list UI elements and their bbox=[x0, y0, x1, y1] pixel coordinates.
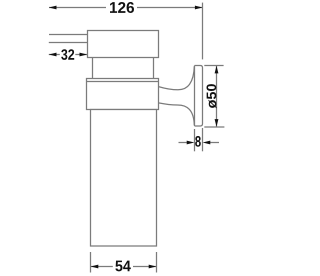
pump neck right edge bbox=[153, 58, 155, 79]
dimension 32 right arrow bbox=[80, 53, 88, 57]
collar inner line bbox=[87, 81, 159, 83]
dimension diameter 50 label bbox=[207, 84, 217, 108]
dimension 8 right extension line bbox=[202, 128, 204, 151]
collar bbox=[87, 79, 159, 110]
dimension 54 left arrow bbox=[91, 265, 99, 269]
dimension 126 line bbox=[49, 7, 203, 9]
dimension 54 line bbox=[91, 266, 157, 268]
dimension 32 line bbox=[49, 54, 87, 56]
dimension 8 right tail bbox=[210, 142, 219, 144]
dimension 8 left tail bbox=[179, 142, 187, 144]
dimension diameter 50 bottom extension line bbox=[204, 126, 224, 128]
spout top line bbox=[49, 34, 88, 36]
dimension 54 left extension line bbox=[90, 252, 92, 273]
dimension diameter 50 line bbox=[216, 66, 218, 128]
bracket plate left edge bbox=[194, 66, 196, 127]
dimension 54 label bbox=[115, 261, 130, 272]
wall extension line bbox=[202, 3, 204, 60]
dimension 32 label bbox=[61, 49, 74, 60]
dimension 8 label bbox=[195, 136, 201, 147]
dimension 126 label bbox=[110, 2, 134, 13]
bracket wall plate bbox=[195, 66, 203, 127]
pump neck left edge bbox=[92, 58, 94, 79]
spout bottom line bbox=[49, 42, 88, 44]
pump head bbox=[88, 31, 159, 58]
bracket trumpet bottom curve bbox=[159, 103, 195, 125]
dimension diameter 50 bottom arrow bbox=[215, 119, 219, 127]
dimension 8 left arrow bbox=[187, 141, 195, 145]
dimension 54 right extension line bbox=[156, 252, 158, 273]
dimension 32 left arrow bbox=[49, 53, 57, 57]
dimension 126 left arrow bbox=[49, 6, 57, 10]
dimension diameter 50 top extension line bbox=[204, 65, 223, 67]
dimension 8 left extension line bbox=[194, 129, 196, 151]
dimension 54 right arrow bbox=[149, 265, 157, 269]
bracket trumpet top curve bbox=[159, 66, 195, 90]
dimension diameter 50 top arrow bbox=[215, 66, 219, 74]
dimension 8 right arrow bbox=[203, 141, 211, 145]
bottle bbox=[91, 110, 157, 247]
dimension 126 right arrow bbox=[195, 6, 203, 10]
